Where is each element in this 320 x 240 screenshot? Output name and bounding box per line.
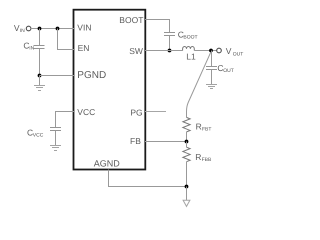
resistor R_FBB [183, 147, 190, 161]
wire CVCC bottom lead [55, 131, 57, 146]
ground below C_IN [34, 76, 45, 91]
junction PGND node [38, 74, 42, 78]
ground below C_VCC [50, 146, 61, 151]
wire VIN terminal to VIN pin [31, 28, 74, 30]
svg-text:BOOT: BOOT [119, 15, 143, 25]
svg-text:VCC: VCC [77, 107, 95, 117]
svg-text:BOOT: BOOT [183, 35, 197, 41]
wire EN tap down and into EN pin [58, 29, 75, 50]
capacitor C_OUT [206, 67, 217, 70]
ground below C_OUT [206, 85, 217, 89]
svg-text:SW: SW [129, 46, 143, 56]
label C_OUT [217, 63, 233, 74]
svg-text:OUT: OUT [223, 68, 234, 74]
svg-text:AGND: AGND [94, 159, 121, 169]
capacitor C_IN [34, 46, 45, 49]
wire R_FBB to AGND node [186, 162, 188, 187]
label C_BOOT [178, 30, 198, 41]
wire C_BOOT bottom lead to SW net [169, 36, 171, 51]
svg-text:L1: L1 [186, 51, 196, 61]
svg-text:EN: EN [78, 43, 90, 53]
wire PG stub [145, 111, 166, 113]
wire VCC pin to CVCC [56, 112, 75, 128]
label C_IN [23, 41, 34, 52]
svg-text:IN: IN [20, 28, 25, 34]
VOUT output terminal circle [217, 48, 222, 53]
label R_FBB [195, 152, 212, 163]
wire C_OUT bottom lead [211, 70, 213, 85]
svg-text:FBB: FBB [202, 157, 212, 163]
svg-text:OUT: OUT [233, 51, 244, 57]
junction CIN/VIN [38, 27, 42, 31]
wire PGND node to PGND pin [40, 75, 75, 77]
svg-text:R: R [195, 152, 201, 162]
wire CIN bottom lead to PGND node [39, 49, 41, 76]
wire AGND pin down and right [109, 170, 187, 187]
svg-text:PGND: PGND [77, 70, 106, 81]
wire SW pin to inductor [145, 50, 183, 52]
IC U1 regulator body [74, 10, 146, 170]
capacitor C_BOOT [164, 33, 175, 36]
junction EN tap [56, 27, 60, 31]
wire BOOT pin to C_BOOT [145, 20, 170, 33]
svg-text:FB: FB [130, 136, 141, 146]
svg-text:IN: IN [29, 46, 34, 52]
node VIN terminal label [14, 23, 25, 34]
wire R_FBT to FB node [186, 132, 188, 142]
label C_VCC [27, 128, 44, 139]
wire inductor to VOUT node [194, 50, 217, 52]
svg-text:V: V [226, 46, 232, 56]
svg-text:PG: PG [130, 107, 142, 117]
junction FB node [185, 140, 189, 144]
resistor R_FBT [183, 117, 190, 131]
junction AGND node [185, 185, 189, 189]
svg-text:VCC: VCC [33, 133, 44, 139]
ground arrow below AGND node [183, 187, 190, 207]
wire CIN top lead [39, 29, 41, 46]
VIN input terminal circle [26, 26, 31, 31]
junction SW/C_BOOT [168, 49, 172, 53]
wire feedback diagonal from VOUT node to R_FBT [187, 52, 211, 117]
svg-text:VIN: VIN [77, 23, 91, 33]
svg-text:FBT: FBT [202, 127, 211, 133]
node VOUT terminal label [226, 46, 244, 57]
svg-text:R: R [196, 121, 202, 131]
wire VOUT node to C_OUT [211, 51, 213, 67]
junction VOUT node [209, 49, 213, 53]
inductor L1 [183, 47, 195, 51]
capacitor C_VCC [50, 128, 61, 131]
label R_FBT [196, 121, 212, 132]
wire FB node to R_FBB [186, 142, 188, 148]
wire FB pin to FB node [145, 141, 187, 143]
